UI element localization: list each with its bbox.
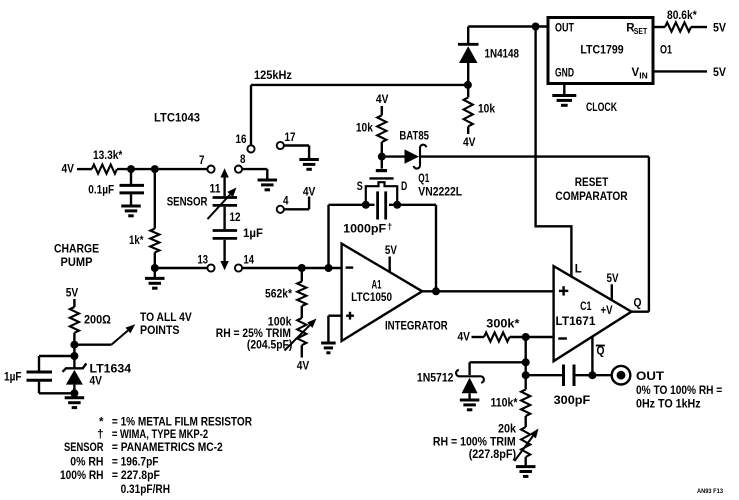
svg-text:300k*: 300k* bbox=[486, 319, 520, 331]
svg-text:16: 16 bbox=[236, 134, 247, 146]
svg-text:LTC1799: LTC1799 bbox=[580, 45, 623, 57]
svg-text:†: † bbox=[387, 222, 392, 232]
svg-text:0% RH: 0% RH bbox=[70, 457, 103, 469]
svg-text:200Ω: 200Ω bbox=[84, 315, 111, 327]
svg-text:100% RH: 100% RH bbox=[60, 470, 104, 482]
svg-text:L: L bbox=[575, 264, 582, 276]
svg-text:VN2222L: VN2222L bbox=[418, 187, 462, 199]
svg-text:4V: 4V bbox=[458, 332, 471, 344]
svg-text:SENSOR: SENSOR bbox=[167, 197, 208, 209]
svg-text:D: D bbox=[401, 181, 407, 193]
svg-text:0% TO 100% RH =: 0% TO 100% RH = bbox=[636, 385, 722, 397]
svg-text:0.1µF: 0.1µF bbox=[88, 185, 114, 197]
svg-text:11: 11 bbox=[210, 184, 222, 196]
svg-text:12: 12 bbox=[230, 212, 241, 224]
svg-text:S: S bbox=[357, 181, 363, 193]
svg-text:= 227.8pF: = 227.8pF bbox=[112, 470, 160, 482]
svg-text:COMPARATOR: COMPARATOR bbox=[555, 191, 628, 203]
svg-text:8: 8 bbox=[240, 154, 246, 166]
svg-text:GND: GND bbox=[555, 68, 574, 80]
svg-text:0Hz TO 1kHz: 0Hz TO 1kHz bbox=[636, 399, 701, 411]
svg-text:1N5712: 1N5712 bbox=[417, 373, 454, 385]
svg-text:5V: 5V bbox=[385, 245, 397, 257]
svg-text:= 1% METAL FILM RESISTOR: = 1% METAL FILM RESISTOR bbox=[112, 416, 253, 428]
svg-text:LTC1050: LTC1050 bbox=[351, 292, 392, 304]
svg-text:1k*: 1k* bbox=[129, 235, 144, 247]
svg-text:100k: 100k bbox=[268, 316, 292, 328]
svg-text:13.3k*: 13.3k* bbox=[93, 150, 123, 162]
svg-text:5V: 5V bbox=[713, 23, 726, 35]
svg-text:= 196.7pF: = 196.7pF bbox=[112, 457, 159, 469]
svg-text:LT1671: LT1671 bbox=[556, 316, 597, 328]
svg-text:13: 13 bbox=[198, 255, 209, 267]
svg-text:IN: IN bbox=[639, 71, 648, 80]
svg-text:(227.8pF): (227.8pF) bbox=[469, 449, 517, 461]
svg-text:300pF: 300pF bbox=[554, 395, 591, 407]
svg-text:CLOCK: CLOCK bbox=[586, 102, 618, 114]
svg-text:125kHz: 125kHz bbox=[254, 70, 292, 82]
svg-text:†: † bbox=[97, 429, 103, 441]
svg-text:V: V bbox=[632, 67, 640, 79]
svg-text:POINTS: POINTS bbox=[140, 325, 180, 337]
svg-text:LTC1043: LTC1043 bbox=[154, 113, 200, 125]
svg-text:4V: 4V bbox=[62, 164, 75, 176]
svg-text:4V: 4V bbox=[376, 94, 389, 106]
svg-text:5V: 5V bbox=[713, 67, 726, 79]
svg-text:Q: Q bbox=[597, 346, 605, 358]
svg-text:4: 4 bbox=[283, 196, 289, 208]
svg-text:OUT: OUT bbox=[555, 23, 574, 35]
svg-text:= WIMA, TYPE MKP-2: = WIMA, TYPE MKP-2 bbox=[112, 429, 208, 441]
svg-text:5V: 5V bbox=[607, 273, 619, 285]
svg-text:Q1: Q1 bbox=[418, 173, 429, 185]
svg-text:A1: A1 bbox=[372, 279, 382, 291]
svg-text:20k: 20k bbox=[498, 424, 517, 436]
svg-text:PUMP: PUMP bbox=[61, 257, 93, 269]
svg-text:RESET: RESET bbox=[575, 177, 608, 189]
svg-text:BAT85: BAT85 bbox=[399, 131, 429, 143]
svg-text:SENSOR: SENSOR bbox=[64, 442, 104, 454]
svg-text:INTEGRATOR: INTEGRATOR bbox=[385, 321, 448, 333]
svg-text:4V: 4V bbox=[90, 376, 103, 388]
svg-text:(204.5pF): (204.5pF) bbox=[247, 340, 293, 352]
svg-text:7: 7 bbox=[199, 155, 205, 167]
svg-text:1000pF: 1000pF bbox=[343, 224, 386, 236]
svg-text:1N4148: 1N4148 bbox=[485, 49, 520, 61]
svg-text:Q: Q bbox=[634, 298, 642, 310]
svg-text:562k*: 562k* bbox=[265, 289, 292, 301]
svg-text:4V: 4V bbox=[463, 137, 476, 149]
svg-text:AN93 F13: AN93 F13 bbox=[697, 488, 723, 495]
svg-text:14: 14 bbox=[244, 255, 255, 267]
svg-text:TO ALL 4V: TO ALL 4V bbox=[140, 312, 192, 324]
svg-text:17: 17 bbox=[285, 132, 296, 144]
svg-text:80.6k*: 80.6k* bbox=[667, 10, 697, 22]
svg-text:10k: 10k bbox=[356, 123, 374, 135]
svg-text:SET: SET bbox=[634, 27, 648, 36]
svg-text:110k*: 110k* bbox=[491, 398, 518, 410]
svg-text:0.31pF/RH: 0.31pF/RH bbox=[121, 484, 170, 496]
svg-text:+V: +V bbox=[601, 305, 613, 317]
svg-text:C1: C1 bbox=[580, 301, 592, 313]
svg-text:5V: 5V bbox=[66, 288, 79, 300]
svg-text:*: * bbox=[99, 416, 104, 428]
svg-text:4V: 4V bbox=[297, 361, 310, 373]
svg-text:1µF: 1µF bbox=[4, 372, 22, 384]
svg-text:= PANAMETRICS MC-2: = PANAMETRICS MC-2 bbox=[112, 442, 223, 454]
svg-text:O1: O1 bbox=[660, 45, 672, 57]
svg-text:1µF: 1µF bbox=[243, 228, 263, 240]
svg-text:OUT: OUT bbox=[636, 371, 664, 383]
svg-text:LT1634: LT1634 bbox=[90, 363, 132, 375]
svg-text:RH = 100% TRIM: RH = 100% TRIM bbox=[433, 437, 516, 449]
svg-text:RH = 25% TRIM: RH = 25% TRIM bbox=[216, 328, 291, 340]
svg-text:10k: 10k bbox=[478, 104, 496, 116]
svg-text:4V: 4V bbox=[303, 187, 316, 199]
svg-text:CHARGE: CHARGE bbox=[54, 244, 99, 256]
